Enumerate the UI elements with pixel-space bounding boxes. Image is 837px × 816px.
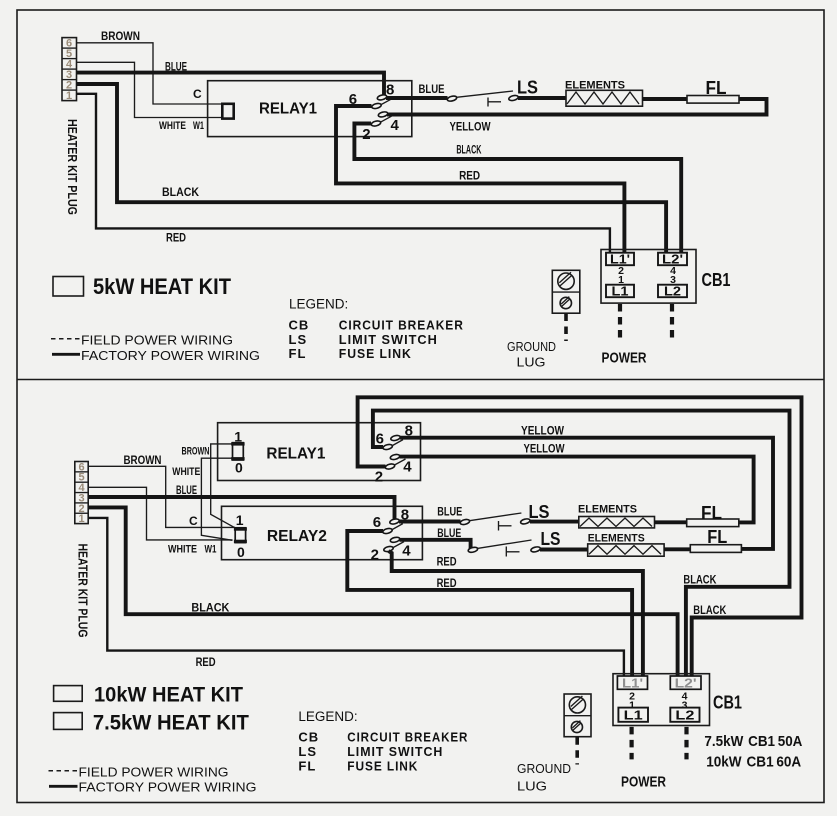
wire red: plug pin1 to CB1 L1-prime (bottom) [88,518,624,676]
svg-text:FUSE LINK: FUSE LINK [347,759,418,774]
wire white: plug pin4 to relay2 coil W1 (bottom) [88,487,232,540]
svg-text:YELLOW: YELLOW [524,442,566,456]
wire brown: plug pin6 to relay2 coil C (bottom) [88,466,235,527]
relay2 pin 6 terminal [373,514,393,534]
legend field power wiring (bottom) [49,770,78,772]
dashed field wire below L1 (top) [618,304,622,341]
svg-text:FIELD POWER WIRING: FIELD POWER WIRING [79,765,229,780]
svg-text:L1: L1 [624,707,643,722]
svg-text:BROWN: BROWN [124,453,162,467]
fuse link FL box (top) [687,96,739,104]
fuse link FL2 box (bottom chain2) [690,545,741,553]
svg-text:1: 1 [78,513,84,525]
svg-text:BLUE: BLUE [419,82,445,96]
wire red: relay2 pin6 to CB1 L1-prime [347,531,632,676]
svg-text:RED: RED [437,555,457,569]
heater kit plug connector (top) [62,38,77,103]
dashed field wire below L2 (top) [670,304,674,341]
wire blue: relay1 pin8 to limit switch LS (top) [386,96,448,100]
svg-text:10kW HEAT KIT: 10kW HEAT KIT [94,684,243,707]
relay1 coil box with pins 1/0 (bottom) [231,429,244,476]
circuit breaker CB1 (bottom) [613,674,710,726]
svg-text:ELEMENTS: ELEMENTS [578,504,637,516]
fuse link FL1 box (bottom chain1) [687,519,739,527]
svg-text:LIMIT SWITCH: LIMIT SWITCH [347,744,443,759]
svg-text:HEATER KIT PLUG: HEATER KIT PLUG [76,544,90,638]
svg-text:FL: FL [289,346,307,361]
svg-text:BROWN: BROWN [182,446,210,458]
relay U1 RELAY1 box (top) [208,81,412,137]
wire black: plug pin2 to CB1 L2-prime (top) [77,84,667,252]
relay2 switch arm 6-8 [392,524,403,530]
svg-text:W1: W1 [205,544,217,556]
svg-text:FACTORY POWER WIRING: FACTORY POWER WIRING [81,348,260,363]
svg-text:LEGEND:: LEGEND: [298,709,357,724]
svg-text:BLACK: BLACK [693,603,726,617]
svg-text:WHITE: WHITE [168,544,197,556]
svg-text:0: 0 [237,544,245,560]
wire white: plug pin4 to relay1 coil W1 (top) [77,62,223,117]
wire blue: plug pin3 to relay2 pin8 (bottom) [88,497,394,519]
svg-text:LUG: LUG [517,779,547,794]
wire: LS2 to elements2 [540,548,588,552]
limit switch LS (top) [447,91,519,107]
wire black: plug pin2 to CB1 L2-prime (bottom) [88,507,677,676]
relay1 switch arm 6-8 (top) [381,99,392,105]
svg-text:LS: LS [289,332,308,347]
svg-text:LS: LS [541,529,561,549]
wire: elements2 to FL2 [664,547,690,551]
svg-text:CB1: CB1 [702,270,731,290]
svg-text:FL: FL [707,527,727,547]
svg-text:LS: LS [529,502,550,522]
wire red: relay2 pin2 to CB1 L1-prime [389,551,643,676]
relay1 pin 6 terminal (bottom) [376,430,393,450]
svg-text:POWER: POWER [602,350,647,367]
svg-text:6: 6 [373,514,381,531]
heating elements resistor box 1 (bottom) [579,517,655,528]
relay1 switch arm 2-4 (bottom) [395,459,406,465]
relay1 pin 8 terminal (bottom) [390,423,413,442]
svg-text:POWER: POWER [621,774,666,791]
svg-text:BLACK: BLACK [683,573,716,587]
svg-text:HEATER KIT PLUG: HEATER KIT PLUG [65,119,79,215]
svg-text:7.5kW HEAT KIT: 7.5kW HEAT KIT [93,712,249,735]
svg-text:BLACK: BLACK [456,143,481,157]
svg-text:7.5kW CB1 50A: 7.5kW CB1 50A [704,733,802,750]
svg-text:1: 1 [234,429,242,445]
svg-text:1: 1 [236,512,244,528]
svg-text:BLUE: BLUE [165,60,187,74]
section divider [17,379,824,381]
svg-text:CIRCUIT BREAKER: CIRCUIT BREAKER [339,318,464,333]
svg-text:RED: RED [459,169,480,183]
wire black: relay1 pin6 to CB1 L2-prime (bottom) [373,411,790,676]
circuit breaker CB1 (top) [601,250,696,304]
svg-text:BLUE: BLUE [176,483,197,497]
svg-text:GROUND: GROUND [517,761,571,776]
svg-text:L2': L2' [675,676,697,691]
wire: LS to elements (top) [518,96,566,100]
wire black: relay1 pin2 to CB1 L2-prime (top) [354,124,681,253]
svg-text:10kW CB1 60A: 10kW CB1 60A [706,753,801,770]
svg-text:RELAY1: RELAY1 [266,446,325,463]
svg-text:CB: CB [298,730,319,745]
svg-text:FUSE LINK: FUSE LINK [339,346,412,361]
svg-text:RED: RED [437,576,457,590]
svg-text:FL: FL [298,759,316,774]
wire red: plug pin1 to CB1 L1-prime (top) [77,94,610,252]
relay1 pin 2 terminal (bottom) [375,463,395,485]
relay1 switch arm 2-4 (top) [381,116,392,122]
wire: LS1 to elements1 [530,520,579,524]
svg-text:CIRCUIT BREAKER: CIRCUIT BREAKER [347,730,468,745]
legend factory power wiring (bottom) [49,785,78,788]
svg-text:ELEMENTS: ELEMENTS [565,80,625,92]
svg-text:4: 4 [402,543,411,560]
heating elements resistor box 2 (bottom) [588,544,664,556]
7.5kW heat kit sample box [54,713,83,730]
legend field power wiring (top) [51,338,80,340]
relay1 pin 8 terminal (top) [377,81,395,100]
svg-text:6: 6 [376,430,384,447]
svg-text:BLUE: BLUE [437,505,462,519]
svg-text:FIELD POWER WIRING: FIELD POWER WIRING [81,333,233,348]
svg-text:L1': L1' [622,676,643,691]
svg-text:WHITE: WHITE [159,120,186,132]
wire yellow: relay1 pin4 loop from FL (top) [387,99,767,115]
wire red: relay1 pin6 to CB1 L1-prime (top) [336,106,624,252]
svg-text:BROWN: BROWN [101,29,140,43]
svg-text:C: C [189,514,198,528]
svg-text:RELAY2: RELAY2 [267,528,327,545]
dashed field wire below ground lug (top) [564,314,568,342]
wire blue: relay2 pin4 to limit switch LS2 [400,540,471,550]
limit switch LS2 (bottom chain2) [468,540,541,557]
dashed field wire below L2 (bottom) [684,727,688,760]
svg-text:2: 2 [362,126,370,143]
svg-text:2: 2 [371,547,379,564]
svg-text:RED: RED [196,655,216,669]
svg-text:FACTORY POWER WIRING: FACTORY POWER WIRING [79,780,257,795]
wire brown branch: relay1 coil C to relay2 coil C [211,444,235,528]
svg-text:YELLOW: YELLOW [521,424,565,438]
relay1 pin 4 terminal (top) [378,111,400,134]
10kW heat kit sample box [54,686,83,702]
svg-text:L1: L1 [612,284,629,299]
svg-text:BLACK: BLACK [191,601,229,615]
svg-text:W1: W1 [193,120,204,132]
relay U2 RELAY2 box (bottom) [222,506,423,559]
svg-text:C: C [193,87,202,101]
svg-text:FL: FL [706,78,727,98]
legend factory power wiring (top) [52,353,80,356]
relay1 pin 4 terminal (bottom) [390,454,413,476]
5kW heat kit sample box [53,277,84,297]
svg-text:BLACK: BLACK [162,185,199,199]
svg-text:LS: LS [298,744,317,759]
svg-text:4: 4 [391,117,400,134]
svg-text:5kW HEAT KIT: 5kW HEAT KIT [93,274,232,299]
svg-text:GROUND: GROUND [507,339,556,354]
svg-text:YELLOW: YELLOW [450,120,492,134]
dashed field wire below L1 (bottom) [629,727,633,760]
heater kit plug connector (bottom) [75,461,88,525]
wire blue: relay2 pin8 to limit switch LS1 [399,520,461,524]
svg-text:LEGEND:: LEGEND: [289,297,348,312]
wire yellow: relay1 pin8 to FL2 (bottom) [400,438,773,549]
heating elements resistor box (top) [566,90,643,106]
wire black: relay1 pin2 to CB1 L2-prime (bottom) [358,397,802,676]
svg-text:2: 2 [375,468,383,485]
wire blue: plug pin3 to relay1 pin8 (top) [77,73,385,95]
svg-text:CB1: CB1 [713,693,742,713]
wire: elements to fuse link (top) [643,97,688,101]
relay1 coil terminal box C/W1 (top) [222,104,233,119]
ground lug (top) [552,270,580,313]
relay2 pin 8 terminal [389,506,409,525]
relay U1 RELAY1 box (bottom) [218,423,421,481]
relay2 pin 4 terminal [390,536,411,559]
svg-text:LS: LS [517,78,538,98]
relay2 pin 2 terminal [371,546,394,564]
svg-text:LUG: LUG [517,355,546,370]
svg-text:RELAY1: RELAY1 [259,101,317,118]
svg-text:WHITE: WHITE [172,466,200,478]
ground lug (bottom) [564,694,591,737]
wire: elements1 to FL1 [655,520,687,524]
limit switch LS1 (bottom chain1) [460,513,531,531]
svg-text:CB: CB [289,318,310,333]
wire brown: plug pin6 to relay1 coil C (top) [77,43,223,104]
svg-text:ELEMENTS: ELEMENTS [588,533,645,545]
relay2 switch arm 2-4 [393,542,404,548]
wire white branch: relay1 coil W1 to relay2 coil W1 [201,458,232,540]
svg-text:4: 4 [403,459,412,476]
relay1 pin 6 terminal (top) [349,91,382,110]
relay1 switch arm 6-8 (bottom) [392,440,403,446]
svg-text:L2: L2 [675,707,694,722]
svg-text:LIMIT SWITCH: LIMIT SWITCH [339,332,438,347]
svg-text:L2: L2 [664,284,681,299]
svg-text:FL: FL [701,503,722,523]
svg-text:1: 1 [66,90,72,102]
svg-text:RED: RED [166,231,186,245]
relay1 pin 2 terminal (top) [362,120,381,143]
svg-text:0: 0 [235,460,243,476]
relay2 coil box with pins 1/0 [234,512,247,560]
dashed field wire below ground lug (bottom) [575,737,579,764]
svg-text:BLUE: BLUE [437,526,461,540]
wire yellow: relay1 pin4 to FL1 (bottom) [400,457,754,523]
